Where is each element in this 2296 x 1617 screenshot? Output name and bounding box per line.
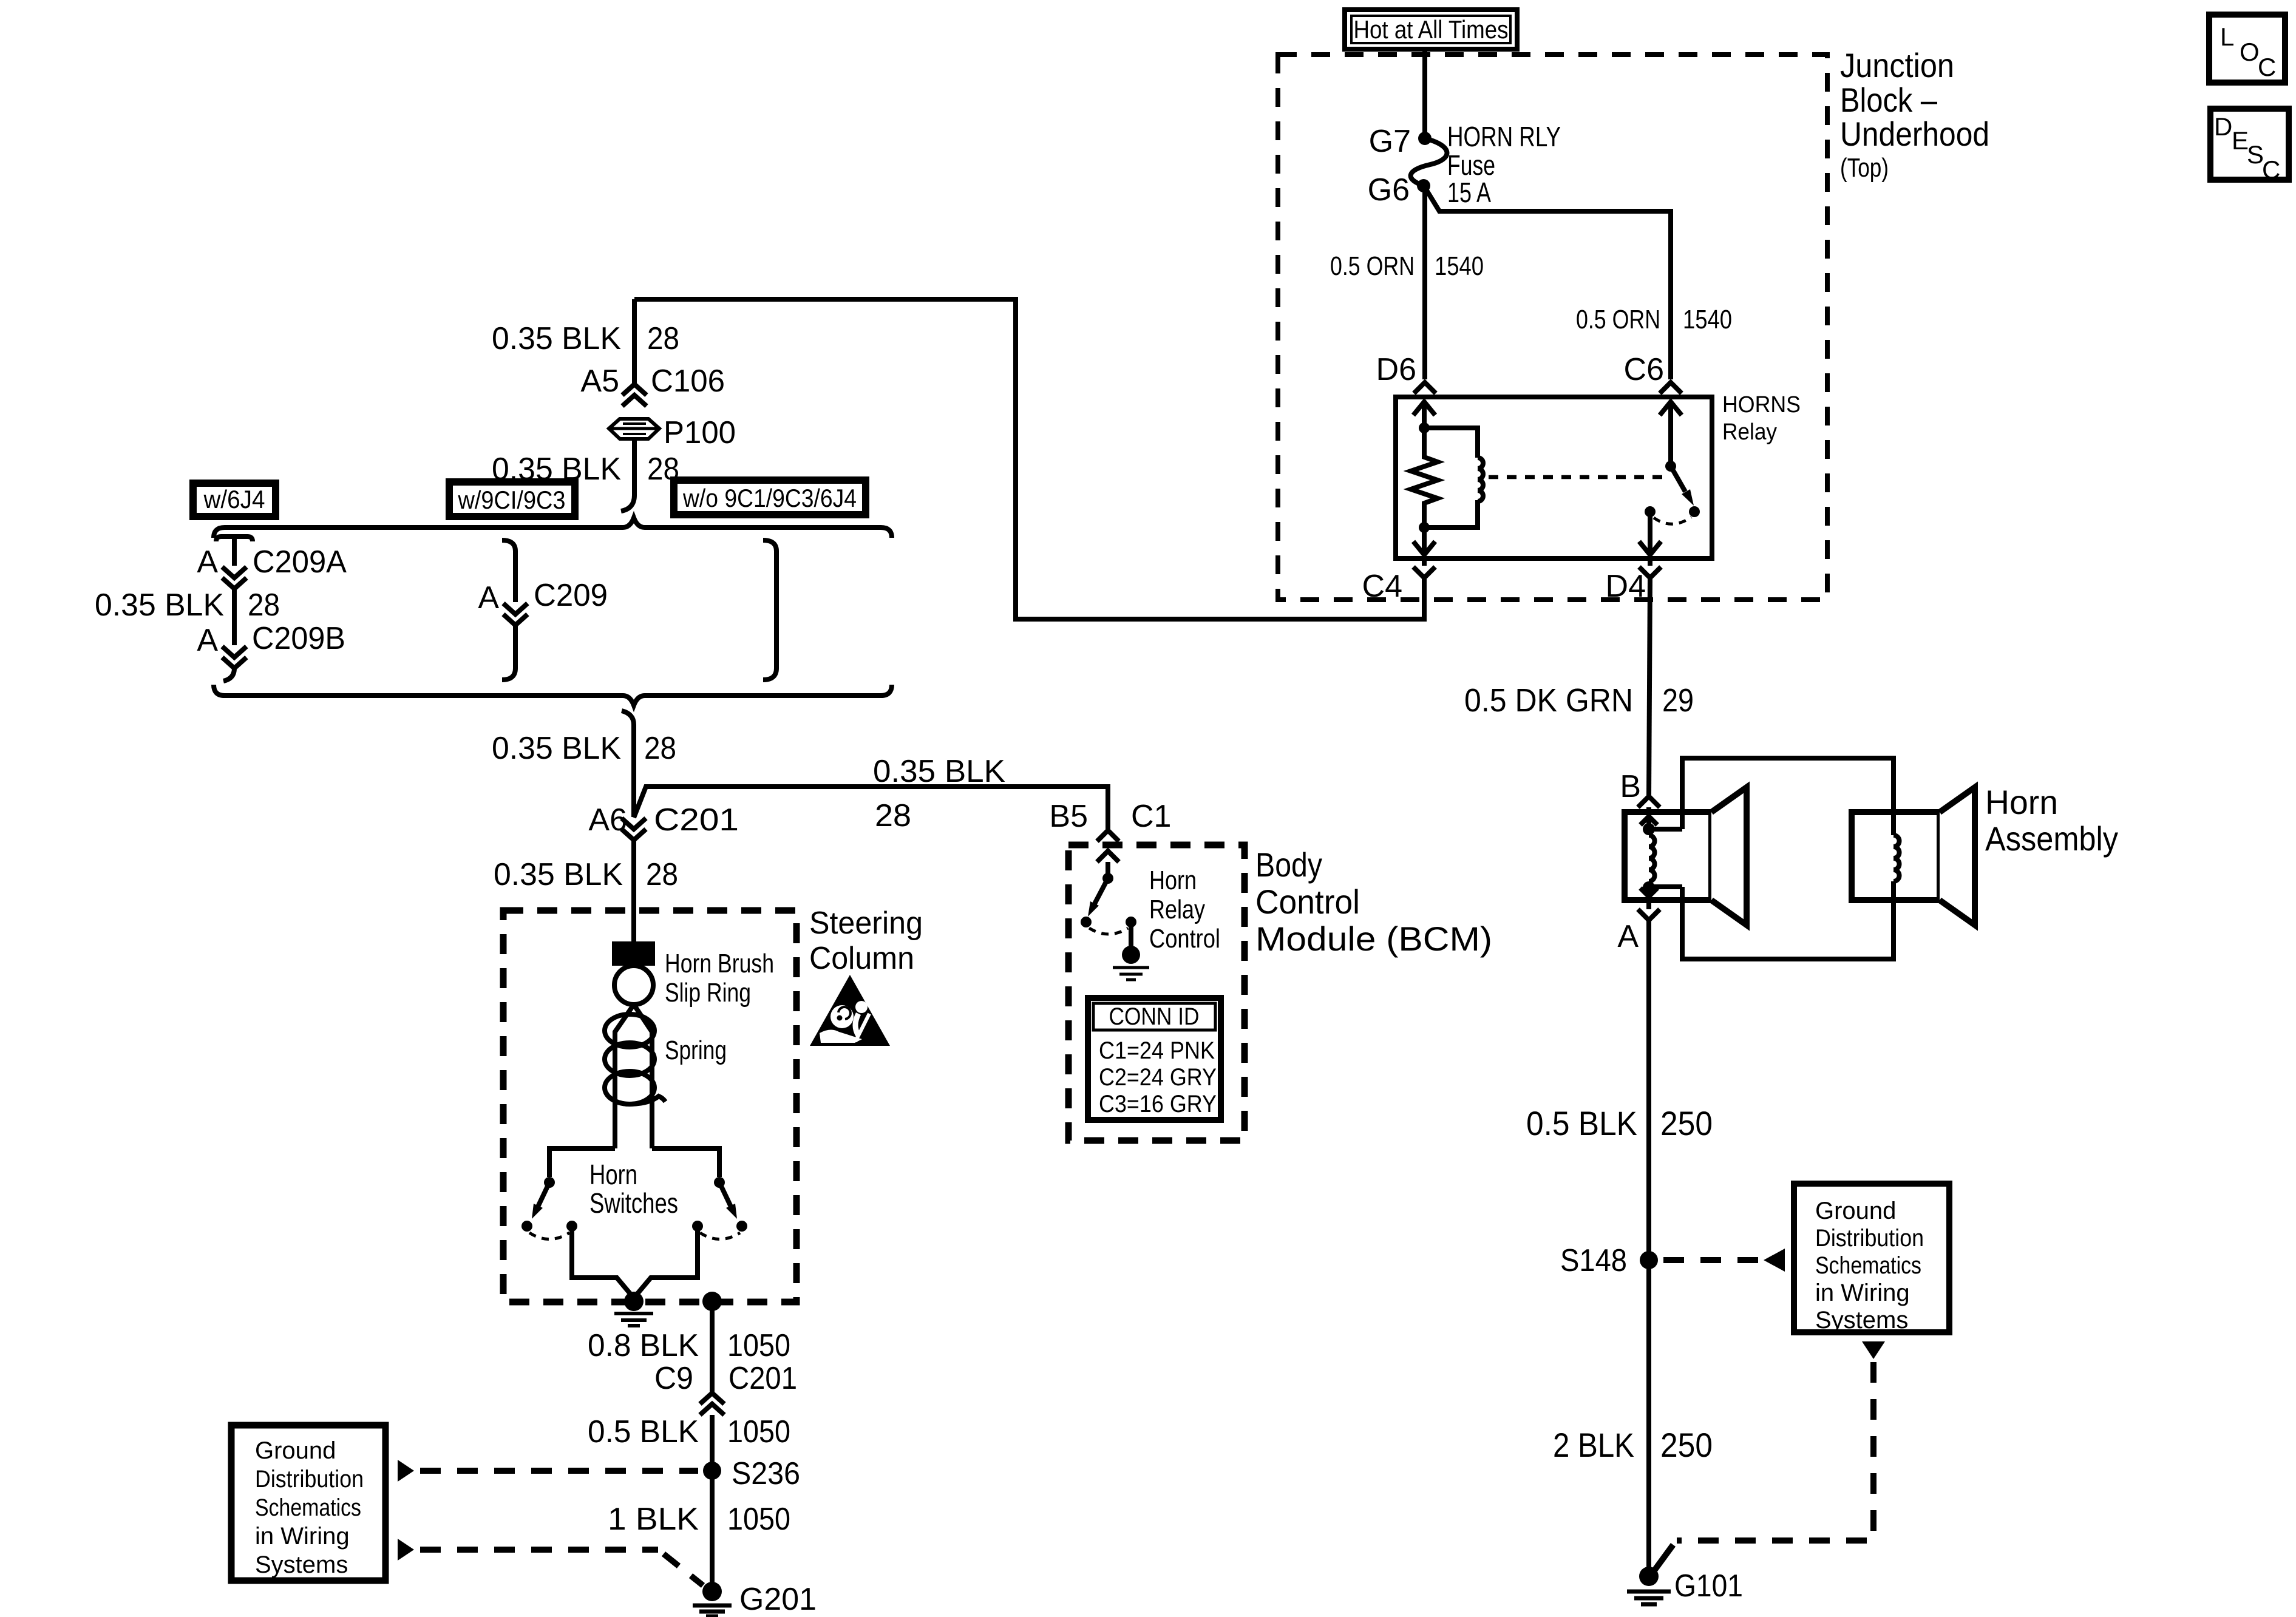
- wire label 1 BLK 1050: [608, 1502, 790, 1537]
- spring coil: [605, 1014, 665, 1104]
- connector C1 pin B5: [1049, 799, 1171, 841]
- svg-text:Control: Control: [1255, 883, 1360, 921]
- wire label 0.35 BLK 28: [492, 452, 679, 487]
- steering ground node: [624, 1292, 644, 1311]
- svg-text:E: E: [2232, 126, 2249, 155]
- ground distribution reference box (left): [231, 1425, 385, 1581]
- ground reference arrow (down): [1862, 1341, 1885, 1359]
- svg-text:250: 250: [1660, 1104, 1713, 1142]
- ground reference arrow (to S236): [398, 1460, 414, 1482]
- BCM driver pivot node: [1102, 873, 1113, 884]
- BCM driver arm: [1095, 878, 1108, 904]
- right horn driver: [1852, 812, 1940, 900]
- LOC reference tab: [2209, 15, 2285, 83]
- svg-text:A6: A6: [588, 802, 627, 838]
- left horn switch: [521, 1148, 633, 1297]
- Horn Assembly label: [1985, 783, 2118, 858]
- svg-text:29: 29: [1662, 682, 1694, 719]
- svg-text:0.5 BLK: 0.5 BLK: [588, 1414, 699, 1449]
- wire label 0.5 ORN 1540 (right): [1576, 305, 1732, 334]
- wire label 0.5 ORN 1540 (left): [1330, 251, 1484, 281]
- svg-text:0.35 BLK: 0.35 BLK: [95, 588, 224, 623]
- svg-text:G6: G6: [1368, 172, 1410, 208]
- svg-text:A: A: [197, 544, 218, 580]
- ground reference dashed lead to S236: [420, 1468, 698, 1474]
- spring feed wires: [615, 1005, 652, 1148]
- svg-text:Switches: Switches: [589, 1187, 678, 1219]
- wire label 0.35 BLK 28: [494, 857, 678, 892]
- svg-text:0.35 BLK: 0.35 BLK: [492, 321, 621, 356]
- svg-text:C4: C4: [1362, 569, 1402, 604]
- option tag w/9CI/9C3: [449, 482, 575, 517]
- relay switch output arrow (to D4): [1639, 512, 1661, 555]
- svg-text:Junction: Junction: [1840, 46, 1954, 84]
- svg-text:w/6J4: w/6J4: [203, 485, 265, 514]
- svg-text:Module (BCM): Module (BCM): [1255, 920, 1492, 958]
- relay switch dashed throw arc: [1654, 517, 1691, 524]
- wire: fuse branch to relay pin C6: [1426, 189, 1671, 379]
- relay resistor: [1411, 428, 1438, 527]
- wire label 0.5 DK GRN 29: [1464, 682, 1694, 719]
- svg-text:HORN RLY: HORN RLY: [1447, 121, 1561, 152]
- svg-text:2 BLK: 2 BLK: [1553, 1426, 1634, 1464]
- svg-text:C209: C209: [534, 578, 608, 613]
- svg-text:28: 28: [647, 321, 679, 356]
- svg-text:w/o 9C1/9C3/6J4: w/o 9C1/9C3/6J4: [682, 484, 857, 512]
- svg-text:C1: C1: [1131, 799, 1171, 834]
- svg-text:0.35 BLK: 0.35 BLK: [492, 731, 621, 766]
- svg-text:0.35 BLK: 0.35 BLK: [873, 754, 1005, 789]
- wire label 2 BLK 250: [1553, 1426, 1713, 1464]
- wire: contact to BCM ground: [1129, 922, 1133, 947]
- svg-text:C209A: C209A: [253, 544, 347, 580]
- svg-text:w/9CI/9C3: w/9CI/9C3: [458, 486, 566, 514]
- svg-text:A: A: [478, 580, 499, 615]
- junction block dashed border: [1278, 55, 1827, 600]
- relay coil pin arrow (to C4): [1413, 527, 1435, 555]
- svg-text:Systems: Systems: [1815, 1307, 1908, 1334]
- connector C209B: [197, 621, 345, 681]
- wire to steering column: [631, 840, 636, 941]
- svg-text:C: C: [2258, 53, 2276, 81]
- wire: to ground G201: [710, 1415, 715, 1592]
- svg-text:D: D: [2214, 112, 2232, 141]
- steering ground symbol: [614, 1314, 653, 1326]
- relay coil pin arrow (from D6): [1413, 402, 1435, 428]
- svg-text:Underhood: Underhood: [1840, 115, 1989, 153]
- svg-text:1050: 1050: [727, 1414, 790, 1449]
- svg-text:Slip Ring: Slip Ring: [665, 978, 751, 1008]
- svg-text:Hot at All Times: Hot at All Times: [1354, 15, 1509, 44]
- svg-text:S148: S148: [1560, 1243, 1627, 1278]
- relay switch common node: [1645, 506, 1656, 517]
- svg-text:HORNS: HORNS: [1722, 392, 1801, 418]
- svg-text:Horn: Horn: [1985, 783, 2058, 821]
- svg-text:28: 28: [875, 798, 911, 833]
- BCM dashed box: [1068, 845, 1245, 1141]
- relay switch pin arrow (from C6): [1660, 402, 1682, 466]
- svg-text:C201: C201: [729, 1361, 797, 1396]
- svg-text:28: 28: [646, 857, 678, 892]
- svg-text:Column: Column: [809, 941, 914, 976]
- node G6: [1417, 179, 1430, 192]
- connector C201 pin A6: [588, 802, 739, 840]
- svg-text:Body: Body: [1255, 846, 1322, 884]
- relay actuation dashed link: [1489, 475, 1665, 480]
- relay switch throw contact: [1689, 506, 1700, 517]
- svg-text:Block –: Block –: [1840, 81, 1938, 119]
- svg-text:D6: D6: [1376, 352, 1416, 387]
- svg-text:Relay: Relay: [1722, 419, 1777, 445]
- svg-text:Relay: Relay: [1149, 895, 1205, 924]
- ground distribution reference box (right): [1794, 1184, 1949, 1334]
- svg-text:C1=24 PNK: C1=24 PNK: [1099, 1037, 1215, 1064]
- svg-text:G101: G101: [1674, 1568, 1743, 1604]
- svg-text:A: A: [1617, 919, 1639, 954]
- wire: battery feed to fuse: [1422, 49, 1427, 134]
- svg-text:Distribution: Distribution: [255, 1466, 364, 1493]
- ground reference dashed route to G101: [1677, 1362, 1873, 1541]
- svg-text:0.5 ORN: 0.5 ORN: [1330, 251, 1415, 281]
- svg-text:Assembly: Assembly: [1985, 819, 2118, 858]
- connector C201 pin C9: [654, 1361, 797, 1415]
- wire: horn low side to ground G101: [1646, 900, 1651, 1576]
- DESC reference tab: [2210, 109, 2289, 184]
- wire label 0.35 BLK 28 (C209 leg): [95, 588, 280, 623]
- svg-text:L: L: [2220, 22, 2234, 51]
- BCM input pin arrow: [1097, 851, 1119, 874]
- svg-text:P100: P100: [664, 415, 736, 450]
- wire: relay C4 to steering column circuit (long route): [634, 299, 1424, 619]
- svg-text:0.8 BLK: 0.8 BLK: [588, 1328, 699, 1363]
- svg-text:28: 28: [644, 731, 676, 766]
- wire label 0.5 BLK 250: [1526, 1104, 1713, 1142]
- relay switch pivot: [1665, 461, 1676, 472]
- wire: relay D4 down to horn: [1649, 578, 1650, 796]
- svg-text:Steering: Steering: [809, 906, 923, 941]
- wire label 0.35 BLK 28: [492, 731, 676, 766]
- Horn Brush / Slip Ring label: [665, 949, 774, 1008]
- horn assembly case: [1682, 758, 1894, 959]
- svg-text:Horn Brush: Horn Brush: [665, 949, 774, 978]
- svg-text:0.35 BLK: 0.35 BLK: [494, 857, 623, 892]
- wire label 0.5 BLK 1050: [588, 1414, 790, 1449]
- svg-text:Distribution: Distribution: [1815, 1225, 1924, 1252]
- continuation hook: [622, 711, 634, 725]
- ground reference dashed lead (S148): [1663, 1257, 1759, 1263]
- relay switch arm: [1671, 466, 1685, 492]
- svg-text:Schematics: Schematics: [255, 1494, 361, 1521]
- BCM dashed throw arc: [1089, 928, 1128, 934]
- steering column dashed box: [503, 910, 796, 1302]
- BCM ground node: [1122, 946, 1140, 964]
- relay coil top node: [1419, 422, 1430, 433]
- branch label 0.35 BLK / 28: [873, 754, 1005, 833]
- svg-text:A5: A5: [580, 364, 619, 399]
- Horn Switches label: [589, 1159, 678, 1219]
- ground G101: [1639, 1567, 1659, 1586]
- through wire (w/o option): [763, 540, 776, 680]
- node G7: [1418, 132, 1432, 145]
- wire: down to C201 C9: [710, 1301, 715, 1393]
- connector C209 pin A: [478, 540, 608, 680]
- svg-text:C: C: [2262, 155, 2280, 184]
- svg-text:S: S: [2247, 140, 2264, 169]
- continuation hook: [621, 495, 634, 511]
- grommet P100: [609, 415, 736, 450]
- BCM ground symbol: [1113, 968, 1149, 980]
- svg-text:250: 250: [1660, 1426, 1713, 1464]
- Horn Relay Control label: [1149, 866, 1220, 954]
- Hot at All Times power tag: [1345, 10, 1517, 49]
- wire below P100: [632, 437, 637, 495]
- horn brush block: [612, 941, 655, 966]
- ground G201: [702, 1582, 722, 1601]
- svg-text:Control: Control: [1149, 924, 1220, 954]
- ground reference arrow (to G201): [398, 1539, 414, 1561]
- svg-text:C201: C201: [654, 802, 739, 838]
- CONN ID table: [1088, 998, 1221, 1120]
- left horn coil: [1649, 835, 1655, 881]
- right horn coil on case edge: [1894, 812, 1900, 900]
- ground reference dashed lead to G201: [420, 1547, 658, 1553]
- svg-text:Ground: Ground: [255, 1437, 336, 1464]
- Body Control Module label: [1255, 846, 1492, 958]
- svg-text:CONN ID: CONN ID: [1109, 1003, 1200, 1030]
- svg-text:Horn: Horn: [589, 1159, 637, 1190]
- ground reference arrow: [1764, 1249, 1785, 1272]
- svg-text:in Wiring: in Wiring: [255, 1523, 350, 1550]
- svg-text:Systems: Systems: [255, 1551, 348, 1578]
- svg-text:C209B: C209B: [252, 621, 345, 656]
- svg-text:A: A: [197, 623, 218, 658]
- svg-text:0.5 ORN: 0.5 ORN: [1576, 305, 1660, 334]
- svg-text:B: B: [1620, 769, 1641, 804]
- svg-text:0.5 BLK: 0.5 BLK: [1526, 1104, 1637, 1142]
- brace (bottom): [214, 685, 892, 705]
- wire: fuse output to relay pin D6: [1422, 186, 1427, 379]
- svg-text:1 BLK: 1 BLK: [608, 1502, 699, 1537]
- svg-text:O: O: [2240, 38, 2260, 66]
- svg-text:S236: S236: [732, 1456, 800, 1491]
- svg-text:in Wiring: in Wiring: [1815, 1280, 1910, 1306]
- relay coil winding: [1424, 428, 1483, 527]
- svg-text:Ground: Ground: [1815, 1198, 1896, 1224]
- case splice node on border: [702, 1292, 722, 1311]
- option tag w/6J4: [193, 483, 276, 517]
- splice S236: [703, 1462, 721, 1480]
- svg-text:C6: C6: [1624, 352, 1664, 387]
- relay coil bottom node: [1419, 522, 1430, 533]
- right horn cone: [1940, 787, 1975, 925]
- svg-text:D4: D4: [1606, 569, 1646, 604]
- wire down to C201: [631, 725, 636, 817]
- connector C209A: [197, 537, 347, 645]
- fuse HORN RLY 15 A: [1411, 138, 1447, 186]
- svg-text:C106: C106: [651, 364, 725, 399]
- brace (top): [214, 518, 892, 538]
- svg-text:C9: C9: [654, 1361, 693, 1396]
- svg-text:15 A: 15 A: [1447, 177, 1491, 208]
- SIR caution triangle: [810, 975, 890, 1046]
- left horn coil terminals: [1643, 823, 1655, 835]
- right horn switch: [635, 1148, 747, 1297]
- Steering Column label: [809, 906, 923, 976]
- svg-text:G201: G201: [739, 1582, 817, 1617]
- Junction Block label: [1840, 46, 1989, 183]
- svg-text:C2=24 GRY: C2=24 GRY: [1099, 1064, 1217, 1091]
- option tag w/o 9C1/9C3/6J4: [674, 480, 866, 515]
- svg-text:Schematics: Schematics: [1815, 1252, 1921, 1279]
- svg-text:1540: 1540: [1683, 305, 1732, 334]
- splice S148: [1640, 1251, 1658, 1269]
- svg-text:Spring: Spring: [665, 1036, 727, 1065]
- BCM contact nodes: [1081, 917, 1092, 927]
- wire label 0.8 BLK 1050: [588, 1328, 790, 1363]
- wire branch to BCM: [634, 787, 1108, 829]
- left horn driver: [1625, 812, 1711, 900]
- svg-text:(Top): (Top): [1840, 153, 1889, 183]
- svg-text:1050: 1050: [727, 1328, 790, 1363]
- connector C106 pin A5: [580, 299, 725, 406]
- svg-text:28: 28: [248, 588, 280, 623]
- svg-text:1540: 1540: [1435, 251, 1484, 281]
- HORNS relay box: [1396, 397, 1712, 558]
- wire label 0.35 BLK 28 (top): [492, 321, 679, 356]
- left horn terminal stubs to case edge: [1649, 812, 1682, 900]
- svg-text:C3=16 GRY: C3=16 GRY: [1099, 1091, 1217, 1117]
- svg-text:B5: B5: [1049, 799, 1088, 834]
- svg-text:G7: G7: [1369, 124, 1411, 159]
- svg-text:0.5 DK GRN: 0.5 DK GRN: [1464, 682, 1633, 719]
- svg-text:1050: 1050: [727, 1502, 790, 1537]
- left horn cone: [1711, 787, 1747, 925]
- left horn feed wire + arrows: [1640, 807, 1657, 829]
- svg-text:Horn: Horn: [1149, 866, 1197, 895]
- slip ring circle: [614, 966, 653, 1005]
